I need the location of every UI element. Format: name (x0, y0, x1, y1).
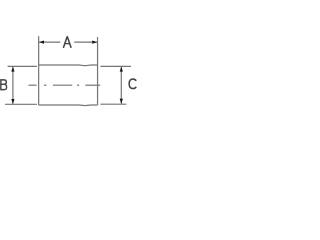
centerline dash-dot (29, 84, 101, 86)
dimension C top arrow (120, 67, 123, 72)
label C (129, 79, 136, 89)
wire right edge + A extension line (97, 37, 99, 105)
dimension A line left segment (39, 41, 60, 43)
wire top edge with bead wave (39, 64, 98, 67)
dimension A left arrow (39, 41, 44, 44)
dimension C line (120, 67, 122, 103)
wire bottom edge with bead wave (39, 104, 98, 107)
label A (63, 36, 71, 48)
dimension B line (12, 67, 14, 103)
dimension A right arrow (92, 41, 97, 44)
wire left edge + A extension line (38, 36, 40, 105)
dimension B top arrow (11, 67, 14, 72)
label B (1, 79, 7, 90)
dimension C top extension line (100, 65, 131, 67)
dimension B top extension line (8, 65, 37, 67)
dimension C bottom extension line (100, 103, 126, 105)
dimension C bottom arrow (120, 99, 123, 104)
dimension B bottom arrow (11, 99, 14, 104)
dimension A line right segment (74, 41, 97, 43)
coupling body outline (39, 36, 98, 105)
dimension B bottom extension line (5, 103, 37, 105)
